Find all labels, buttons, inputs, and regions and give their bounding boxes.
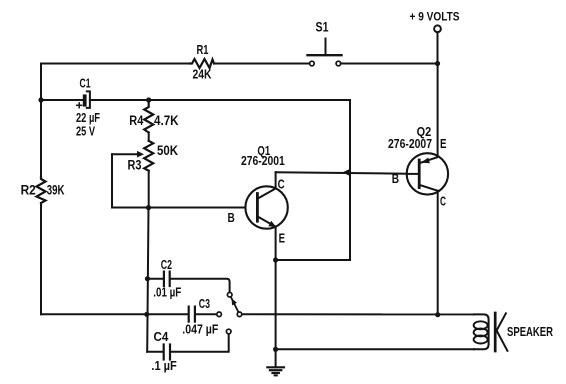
rotary selector switch — [227, 292, 241, 316]
speaker — [474, 313, 508, 351]
svg-text:.1 µF: .1 µF — [151, 358, 176, 373]
svg-text:276-2007: 276-2007 — [388, 137, 432, 151]
svg-text:24K: 24K — [193, 66, 212, 81]
potentiometer R3 — [112, 141, 153, 208]
wire switch pole to speaker rail — [242, 313, 474, 315]
svg-text:.01 µF: .01 µF — [153, 285, 181, 300]
wire mid-left vertical (R3 bottom to C4) — [147, 208, 148, 352]
svg-text:E: E — [440, 136, 447, 151]
svg-text:R3: R3 — [128, 158, 142, 173]
wire Q2 collector down — [437, 191, 439, 315]
resistor R4 — [144, 100, 153, 141]
svg-text:C4: C4 — [154, 329, 169, 344]
capacitor C1 — [77, 91, 90, 108]
wire bottom of right vertical to Q1 emitter — [276, 259, 350, 261]
svg-text:C3: C3 — [199, 296, 210, 311]
resistor R1 — [190, 59, 214, 68]
wire left vertical top segment — [40, 64, 42, 178]
capacitor C2 — [148, 272, 230, 293]
svg-text:R4: R4 — [129, 113, 143, 128]
wire C1 to right vertical — [90, 99, 350, 101]
node junction R3 bottom / base rail — [146, 205, 151, 210]
node junction Q1 emitter — [273, 257, 278, 262]
svg-text:B: B — [392, 171, 399, 186]
svg-text:39K: 39K — [47, 183, 65, 198]
wire terminal down — [437, 32, 439, 63]
svg-text:50K: 50K — [157, 143, 178, 158]
capacitor C4 — [147, 329, 231, 359]
svg-text:R2: R2 — [21, 183, 36, 198]
svg-text:C: C — [278, 176, 285, 191]
switch S1 — [308, 39, 342, 66]
svg-text:.047 µF: .047 µF — [182, 321, 218, 336]
svg-text:E: E — [279, 230, 286, 245]
node arrow junction at right vertical — [343, 169, 351, 177]
svg-text:B: B — [228, 210, 235, 225]
wire second rail left of C1 — [41, 99, 83, 101]
transistor Q1 — [245, 186, 287, 228]
node junction at +9V rail — [435, 61, 440, 66]
node junction ground — [273, 347, 278, 352]
svg-text:R1: R1 — [197, 42, 209, 57]
wire base rail to Q1 — [112, 207, 246, 209]
wire S1 to +9V node — [341, 63, 438, 65]
svg-text:C1: C1 — [80, 76, 91, 91]
wire Q1 collector to Q2 base — [276, 172, 407, 174]
svg-text:276-2001: 276-2001 — [241, 154, 285, 168]
capacitor C3 — [189, 307, 222, 322]
transistor Q2 — [407, 153, 448, 194]
wire +9V rail down to Q2 emitter — [437, 64, 439, 156]
node junction Q2 collector / speaker rail — [435, 312, 440, 317]
svg-text:SPEAKER: SPEAKER — [507, 325, 553, 339]
node junction C2 tap — [145, 276, 150, 281]
node junction C3 rail — [144, 312, 149, 317]
wire Q1 collector up — [275, 172, 277, 188]
svg-text:S1: S1 — [316, 20, 329, 35]
node junction left rail / C1 rail — [38, 97, 43, 102]
svg-text:C2: C2 — [161, 257, 172, 272]
+9 VOLTS terminal — [434, 25, 441, 32]
bottom rail from left vertical — [41, 313, 188, 315]
wire right vertical — [349, 100, 351, 260]
wire Q1 emitter down — [275, 227, 277, 350]
svg-text:C: C — [440, 193, 446, 208]
wire speaker bottom rail — [276, 348, 474, 350]
ground — [267, 349, 284, 375]
resistor R2 — [37, 177, 46, 203]
svg-text:+ 9 VOLTS: + 9 VOLTS — [410, 12, 460, 24]
wire top rail left of R1 — [41, 63, 190, 65]
svg-text:4.7K: 4.7K — [154, 113, 179, 128]
svg-text:25 V: 25 V — [76, 124, 95, 139]
node junction R4 top — [146, 97, 151, 102]
wire left vertical bottom segment — [40, 203, 42, 314]
wire R1 to S1 — [214, 63, 310, 65]
